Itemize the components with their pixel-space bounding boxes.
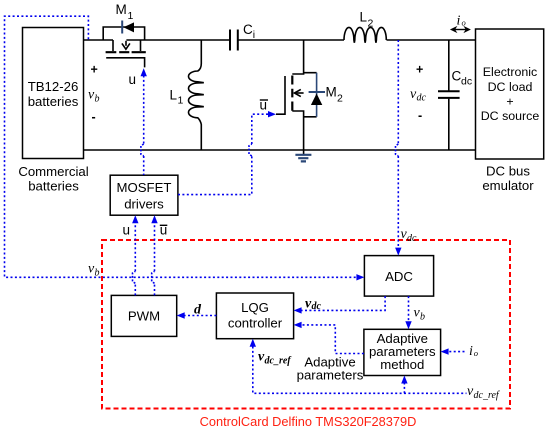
arrow d into PWM [177, 312, 185, 318]
label vdc above ADC [401, 227, 418, 244]
svg-text:C: C [452, 69, 462, 84]
svg-text:emulator: emulator [482, 178, 534, 193]
svg-text:1: 1 [178, 95, 184, 107]
arrow vdc_ref into LQG bottom [250, 339, 256, 347]
label Cdc [452, 69, 473, 88]
svg-text:o: o [474, 348, 478, 358]
svg-text:2: 2 [337, 92, 343, 104]
wire top rail Ci to L2 [238, 39, 344, 41]
label DC bus emulator [482, 164, 534, 194]
transistor M1 [103, 27, 146, 67]
label Ci [243, 22, 255, 41]
svg-text:i: i [253, 29, 255, 41]
arrow vb into ADC [356, 274, 364, 280]
svg-text:PWM: PWM [128, 309, 160, 324]
arrow u into drivers [132, 215, 138, 223]
svg-text:C: C [243, 22, 253, 37]
wire top rail M1 to Ci [126, 39, 230, 41]
label ubar at M2 gate [260, 98, 269, 113]
label vdc [410, 87, 427, 104]
svg-text:b: b [95, 268, 100, 279]
arrow adaptive params into LQG [294, 322, 302, 328]
label vdc_ref bottom right [467, 384, 500, 401]
svg-text:DC source: DC source [481, 109, 540, 123]
svg-text:DC load: DC load [488, 80, 533, 94]
svg-text:+: + [91, 63, 98, 77]
label L1 [170, 88, 184, 107]
svg-text:d: d [194, 303, 202, 318]
svg-text:TB12-26: TB12-26 [28, 79, 79, 94]
svg-text:M: M [116, 2, 127, 17]
label L2 [360, 10, 374, 30]
svg-text:b: b [420, 312, 425, 323]
svg-text:LQG: LQG [241, 300, 269, 315]
label M2 [326, 85, 344, 105]
svg-text:ADC: ADC [385, 269, 413, 284]
svg-text:ControlCard Delfino TMS320F283: ControlCard Delfino TMS320F28379D [200, 414, 417, 429]
wire top rail battery to M1 [84, 39, 114, 41]
label vb ADC to method [414, 306, 426, 323]
svg-text:b: b [95, 94, 100, 105]
label vb left of red box [88, 262, 100, 279]
svg-text:Electronic: Electronic [483, 65, 537, 79]
label load box text [481, 65, 540, 123]
arrow vdc into ADC top [395, 248, 401, 256]
arrow vdc into LQG [294, 307, 302, 313]
arrow io into method box [441, 348, 449, 354]
svg-text:-: - [418, 109, 422, 123]
Adaptive parameters method box [364, 329, 441, 375]
arrow vdc_ref into method bottom [401, 376, 407, 384]
label battery box text [28, 79, 79, 109]
PWM box [111, 295, 176, 336]
svg-text:parameters: parameters [297, 368, 364, 383]
svg-text:batteries: batteries [28, 179, 79, 194]
ADC box [364, 256, 433, 297]
diode M1 body [122, 21, 134, 34]
wire vdc ADC to LQG [302, 296, 386, 310]
svg-text:dc: dc [312, 301, 322, 312]
svg-text:dc_ref: dc_ref [265, 356, 293, 367]
DSP red dashed box [102, 240, 510, 409]
label Commercial batteries [18, 164, 88, 194]
load box Electronic DC load [476, 29, 544, 159]
wire u PWM to drivers [134, 283, 136, 295]
svg-text:L: L [360, 10, 368, 25]
wire ubar gate drive to M2 [178, 156, 252, 195]
wire top rail L2 to load [387, 39, 476, 41]
svg-text:method: method [380, 357, 424, 372]
wire u gate drive to M1 [143, 76, 145, 145]
blue arrowheads [132, 68, 449, 383]
svg-text:DC bus: DC bus [486, 164, 530, 179]
wire bottom rail [84, 149, 476, 151]
arrow ubar into M2 gate [268, 111, 276, 117]
label io input [469, 344, 478, 359]
svg-text:u: u [129, 72, 137, 87]
svg-text:controller: controller [228, 316, 283, 331]
label M1 [116, 2, 134, 22]
wire vdc_ref [253, 347, 467, 394]
svg-text:+: + [416, 63, 423, 77]
inductor L2 [344, 27, 386, 42]
svg-text:dc_ref: dc_ref [474, 390, 500, 401]
svg-text:dc: dc [461, 76, 472, 88]
svg-text:L: L [170, 88, 178, 103]
LQG controller box [216, 293, 293, 339]
svg-text:1: 1 [128, 10, 134, 22]
label ubar above PWM [160, 223, 168, 238]
svg-text:i: i [457, 14, 461, 29]
svg-text:-: - [92, 110, 96, 124]
transistor M2 [276, 40, 304, 150]
wire vb ADC to method box [408, 296, 410, 321]
wire adaptive parameters method to LQG [302, 325, 364, 354]
svg-text:Commercial: Commercial [18, 164, 88, 179]
svg-text:drivers: drivers [124, 197, 164, 212]
wire vb sense loop from battery node to ADC [5, 16, 357, 277]
arrow vb into method box [405, 321, 411, 329]
wire vdc sense top to ADC [397, 40, 399, 144]
label Adaptive parameters [297, 355, 364, 383]
inductor L1 [189, 40, 204, 150]
svg-text:dc: dc [407, 233, 417, 244]
svg-text:i: i [469, 344, 473, 359]
svg-text:+: + [506, 95, 513, 109]
svg-text:M: M [326, 85, 337, 100]
svg-text:u: u [123, 223, 131, 238]
label vdc_ref near LQG [258, 350, 292, 367]
wire d LQG to PWM [185, 315, 217, 317]
ground [295, 150, 311, 161]
arrow u into M1 gate [141, 68, 147, 76]
battery box TB12-26 [23, 28, 84, 159]
label vdc ADC to LQG [305, 297, 322, 313]
current io arrow [450, 26, 471, 33]
capacitor Cdc [438, 40, 460, 150]
capacitor Ci [230, 30, 238, 51]
wire ubar PWM to drivers [154, 283, 156, 295]
wire io input [449, 351, 465, 353]
diode M2 body [304, 73, 325, 117]
svg-text:dc: dc [417, 93, 427, 104]
label vb battery [88, 88, 100, 105]
svg-text:o: o [462, 17, 466, 27]
label io [457, 14, 466, 29]
arrow ubar into drivers [151, 215, 157, 223]
svg-text:2: 2 [368, 17, 374, 29]
svg-text:batteries: batteries [28, 94, 79, 109]
MOSFET drivers box [110, 175, 178, 215]
svg-text:MOSFET: MOSFET [117, 180, 172, 195]
